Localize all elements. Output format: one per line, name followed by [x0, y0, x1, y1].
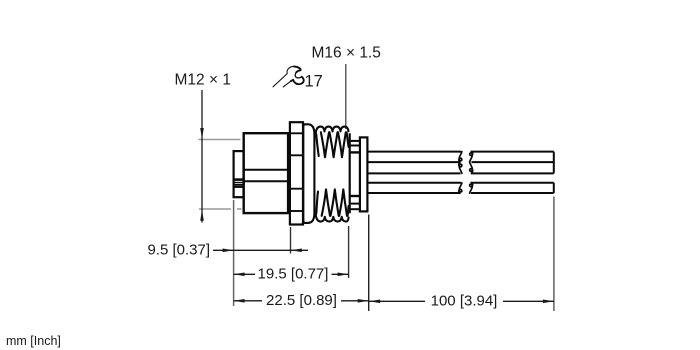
svg-text:100 [3.94]: 100 [3.94]	[431, 293, 498, 310]
svg-text:mm [Inch]: mm [Inch]	[6, 334, 61, 348]
svg-text:M16 × 1.5: M16 × 1.5	[312, 45, 381, 62]
svg-text:M12 × 1: M12 × 1	[175, 72, 231, 89]
svg-text:17: 17	[305, 72, 323, 90]
svg-text:22.5 [0.89]: 22.5 [0.89]	[266, 292, 337, 309]
svg-text:19.5 [0.77]: 19.5 [0.77]	[258, 266, 329, 283]
svg-text:9.5 [0.37]: 9.5 [0.37]	[147, 241, 210, 258]
